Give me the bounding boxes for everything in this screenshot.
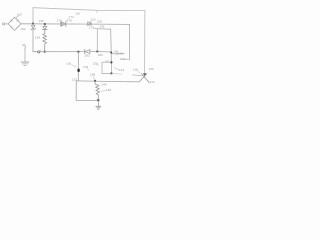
wire line2 under diode [94, 28, 111, 31]
diode 174 on top wire [60, 22, 62, 27]
svg-text:180: 180 [98, 53, 103, 57]
stub left at y59.2 [123, 58, 130, 60]
ground G1 bars [96, 105, 101, 107]
zener diode 156 below node x33 [32, 23, 34, 25]
bus stub right [111, 53, 124, 55]
bridge diode tick top-right [17, 20, 18, 21]
vertical drop x78.35 from bus [77, 51, 79, 53]
tick at start of outer line x97 [96, 10, 98, 12]
diode 170 on bus pointing left [84, 50, 86, 54]
ground G2 bars [21, 61, 29, 63]
node dot at x33 [32, 22, 34, 24]
svg-text:182: 182 [85, 53, 90, 57]
svg-text:112: 112 [150, 80, 155, 84]
bridge diode tick bottom-left [11, 27, 12, 28]
transistor Q1 arrow [143, 73, 146, 76]
svg-text:172: 172 [69, 15, 74, 19]
outer top line sloping right [33, 8, 145, 11]
node dot on bus under R1 [44, 51, 46, 53]
wire top main (bridge to right corner) [21, 23, 130, 26]
loop left side and bottom wire [76, 81, 98, 101]
svg-text:130: 130 [66, 62, 71, 66]
leader from ring [40, 49, 42, 51]
svg-text:102: 102 [75, 11, 80, 15]
transistor Q1 leg right [141, 74, 149, 83]
node dot bottom [97, 99, 99, 101]
svg-text:158: 158 [39, 19, 44, 23]
wire up from node to outer top line [32, 8, 34, 24]
wire zener to bus corner [32, 29, 34, 51]
vertical x111 down from line2 [110, 29, 113, 62]
svg-text:152: 152 [20, 27, 25, 31]
transistor Q1 leg left [139, 74, 147, 82]
lower bus to transistor emitter [76, 81, 139, 82]
svg-text:150: 150 [17, 12, 22, 16]
ground G1 stem [97, 100, 99, 106]
bridge diode tick bottom-right [17, 26, 18, 27]
wire base (box to transistor) [112, 72, 123, 75]
node dot lower bus [94, 80, 96, 82]
node dot box top-right [110, 61, 112, 63]
svg-text:124: 124 [120, 57, 125, 61]
svg-text:144: 144 [119, 68, 124, 72]
ground G2 curl [22, 45, 25, 49]
diode 122 second on top wire [88, 22, 91, 26]
node dot box bottom-right [110, 72, 112, 74]
svg-text:120: 120 [149, 67, 154, 71]
bridge rectifier 150 (diamond) [8, 17, 21, 30]
bus wire middle y51.6 [33, 51, 85, 53]
svg-text:174: 174 [57, 19, 62, 23]
svg-text:174: 174 [89, 25, 94, 29]
svg-text:148: 148 [106, 88, 111, 92]
blob component on drop wire [77, 69, 80, 73]
bridge diode tick top-left [11, 20, 12, 21]
svg-text:126: 126 [99, 24, 104, 28]
box 142 [102, 62, 112, 73]
diode 158 pointing down [44, 24, 46, 26]
wire AC to bridge [5, 23, 8, 25]
resistor R2 zigzag [95, 81, 100, 100]
ground G2 stem [24, 49, 26, 62]
terminal ring on bus [38, 51, 40, 53]
leader 150 [16, 16, 19, 19]
svg-text:164: 164 [35, 36, 40, 40]
node dot2 at x44.8 [44, 23, 46, 25]
wire from bus dot up to line2 [96, 29, 98, 52]
svg-text:146: 146 [101, 82, 106, 86]
svg-text:138: 138 [93, 62, 98, 66]
AC input terminal [3, 23, 5, 25]
outer right vertical down to transistor collector [144, 11, 146, 73]
svg-text:122: 122 [91, 17, 96, 21]
svg-text:128: 128 [97, 20, 102, 24]
svg-text:142: 142 [104, 59, 109, 63]
resistor R1 zigzag [43, 33, 47, 51]
node dot at x97.3 on bus [96, 50, 98, 52]
svg-text:140: 140 [118, 52, 123, 56]
node dot bus-jog [110, 52, 112, 54]
svg-text:136: 136 [83, 65, 88, 69]
inner corner vertical x129.6 [129, 24, 131, 59]
